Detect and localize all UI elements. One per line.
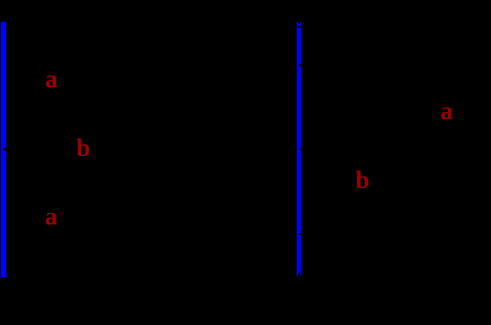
svg-text:a: a xyxy=(441,98,454,125)
svg-text:a: a xyxy=(45,204,58,231)
svg-text:a: a xyxy=(45,66,58,93)
svg-text:b: b xyxy=(76,135,90,162)
svg-text:b: b xyxy=(356,167,370,194)
